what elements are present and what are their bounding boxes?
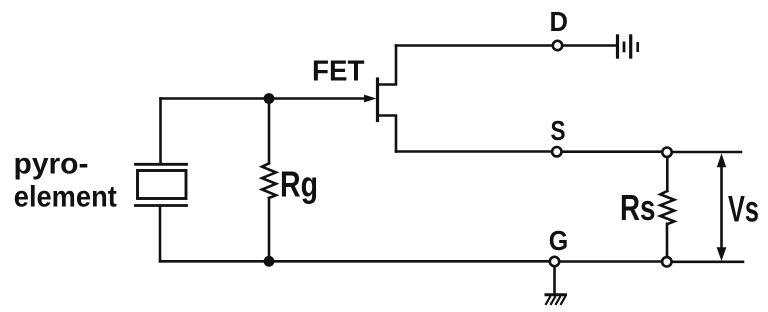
svg-text:G: G bbox=[549, 225, 569, 256]
svg-text:Rg: Rg bbox=[280, 164, 318, 205]
svg-text:element: element bbox=[14, 180, 117, 213]
svg-text:S: S bbox=[551, 115, 566, 146]
svg-text:Vs: Vs bbox=[728, 189, 759, 230]
svg-text:FET: FET bbox=[312, 56, 365, 88]
svg-text:D: D bbox=[550, 6, 569, 37]
svg-text:pyro-: pyro- bbox=[14, 148, 89, 181]
svg-text:Rs: Rs bbox=[620, 187, 656, 228]
